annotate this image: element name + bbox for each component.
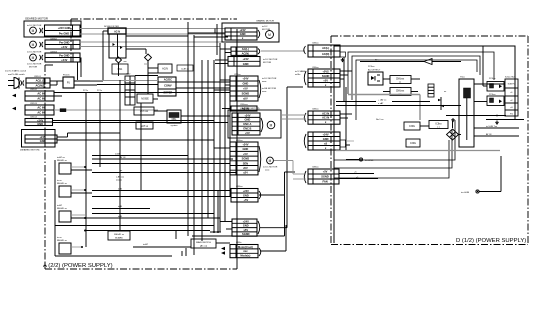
box filter F1	[158, 64, 172, 73]
thermostat TS1 diamond	[116, 57, 122, 63]
wire CN102 out	[54, 92, 230, 94]
long wire y163	[92, 163, 230, 165]
wire fuse out	[74, 80, 103, 82]
svg-text:+24V: +24V	[242, 142, 248, 146]
svg-text:A (2/2) (POWER SUPPLY): A (2/2) (POWER SUPPLY)	[43, 263, 113, 269]
svg-text:AT IN: AT IN	[486, 133, 492, 136]
long wire y196	[92, 196, 231, 198]
svg-text:CN6x: CN6x	[409, 125, 416, 128]
wire D interior v2	[345, 87, 347, 150]
svg-text:AC(L): AC(L)	[242, 47, 249, 51]
svg-text:CN6xxx: CN6xxx	[396, 78, 405, 81]
svg-text:+24V: +24V	[242, 77, 248, 81]
long wire y225	[55, 225, 214, 227]
D main board box	[334, 46, 515, 243]
svg-text:CN6x: CN6x	[410, 142, 417, 145]
box left small2	[406, 139, 420, 147]
wire D2 to interior	[340, 70, 352, 72]
svg-text:SGND: SGND	[242, 92, 250, 96]
connector strip 4pin	[428, 84, 434, 97]
svg-text:to DC MOTOR: to DC MOTOR	[263, 58, 278, 61]
svg-text:xxx: xxx	[243, 250, 248, 253]
geared motor box top-mid	[222, 20, 279, 43]
box IC602	[429, 121, 448, 129]
noise filter header box	[108, 28, 126, 34]
main switch box	[191, 239, 216, 248]
svg-text:+24V GND: +24V GND	[58, 26, 71, 30]
wires into bar1	[220, 48, 231, 50]
relay RY1 wires	[71, 166, 85, 168]
motor top-mid	[266, 31, 274, 39]
AC arrow	[424, 59, 432, 65]
svg-text:(xxxx): (xxxx)	[116, 180, 122, 182]
svg-text:SEN: SEN	[243, 161, 248, 165]
svg-text:x5V: x5V	[243, 166, 248, 170]
svg-text:Pw GND: Pw GND	[59, 53, 69, 57]
svg-text:AC DETECT: AC DETECT	[368, 69, 381, 72]
connector CN902 bar	[45, 39, 80, 50]
geared motor M901 box	[24, 21, 81, 37]
svg-text:and To BE switch: and To BE switch	[8, 73, 26, 76]
connector D5 table	[304, 167, 339, 185]
FET Q601	[438, 91, 447, 110]
svg-text:x5V: x5V	[243, 228, 248, 232]
svg-text:AC IN: AC IN	[322, 111, 329, 115]
connector CN101 bar	[26, 76, 50, 88]
svg-text:MAIN SWITCH: MAIN SWITCH	[196, 241, 211, 244]
svg-text:DBL: DBL	[172, 118, 177, 121]
connector T3 table	[230, 74, 261, 101]
svg-text:AC-N: AC-N	[114, 31, 120, 34]
fuse FU101 box	[63, 75, 74, 89]
wire grey pair from CN901	[80, 28, 225, 30]
bus wire v x214	[213, 60, 215, 232]
wire grey bar1 to D1	[261, 50, 305, 52]
section A boundary (dash-dot)	[45, 19, 237, 269]
svg-text:x24: x24	[243, 171, 248, 175]
svg-text:IC6xx SUB: IC6xx SUB	[505, 77, 516, 79]
svg-text:to DC MOTOR: to DC MOTOR	[263, 166, 278, 169]
wire cluster v2	[140, 103, 142, 190]
svg-text:CN6xx: CN6xx	[236, 186, 243, 188]
wire CN104 out	[53, 120, 215, 122]
svg-text:PC6xx: PC6xx	[368, 66, 375, 68]
relay RY3	[57, 204, 71, 222]
svg-text:CN6xxx: CN6xxx	[396, 90, 405, 93]
wire CN101 to fuse	[50, 80, 63, 82]
svg-text:xxISx: xxISx	[295, 74, 301, 76]
svg-text:+24V: +24V	[243, 57, 249, 61]
wire cluster outs	[176, 81, 230, 83]
svg-text:SUB Pin: SUB Pin	[508, 84, 517, 86]
svg-text:FU101: FU101	[63, 75, 70, 77]
bus wire v x230	[229, 96, 231, 196]
svg-text:to DC MOTOR: to DC MOTOR	[27, 24, 42, 27]
svg-text:+ xAT xx: + xAT xx	[378, 99, 387, 102]
relay RY1	[57, 156, 71, 174]
wire y115 row	[446, 115, 506, 117]
svg-text:RELAY xx: RELAY xx	[57, 239, 68, 242]
wire D3 out	[340, 113, 352, 115]
svg-text:GND: GND	[243, 82, 249, 86]
svg-text:to B: to B	[118, 188, 122, 191]
svg-text:D (1/2) (POWER SUPPLY): D (1/2) (POWER SUPPLY)	[456, 238, 526, 244]
connector T6 table	[231, 186, 261, 202]
svg-text:M: M	[270, 123, 273, 127]
inner box A-bottom	[54, 160, 56, 256]
svg-text:GEARED MOTOR: GEARED MOTOR	[256, 20, 274, 23]
long wire y190	[92, 190, 231, 192]
svg-text:MOTOR: MOTOR	[29, 67, 38, 69]
D nested rect 2	[352, 56, 480, 100]
wire cluster v3	[147, 62, 149, 94]
svg-text:ENC B: ENC B	[243, 127, 251, 131]
svg-text:+5V: +5V	[323, 78, 328, 82]
bus wire v x225	[224, 43, 226, 222]
box E6	[134, 107, 154, 115]
connector T5 table	[230, 140, 261, 175]
connector CN105 box	[22, 130, 56, 148]
svg-text:+5VS: +5VS	[322, 69, 329, 73]
svg-text:CN6xx: CN6xx	[312, 167, 319, 169]
svg-text:Mode(x): Mode(x)	[240, 254, 250, 258]
box CN6xx R1	[390, 76, 411, 84]
svg-text:to B: to B	[118, 205, 122, 208]
box double system (dark)	[167, 110, 181, 123]
wires into M0	[188, 32, 225, 34]
svg-text:ENC A: ENC A	[243, 122, 251, 126]
svg-text:+5V: +5V	[323, 170, 328, 174]
box left small1	[404, 122, 420, 130]
svg-text:IC6xx: IC6xx	[435, 123, 442, 126]
wire cluster v4	[148, 72, 158, 74]
connector D4 table	[304, 132, 340, 150]
bus wire h y33	[220, 79, 230, 81]
wire D interior v1	[343, 57, 345, 101]
svg-text:PC6xx: PC6xx	[489, 78, 496, 80]
svg-text:No.1 xx: No.1 xx	[376, 119, 384, 121]
svg-text:CN2: CN2	[126, 74, 131, 76]
svg-text:GND: GND	[37, 122, 43, 126]
D nested rect 1	[348, 52, 494, 94]
wire CN105 out	[57, 136, 68, 138]
AC plug P1	[8, 78, 24, 89]
connector bar1	[231, 47, 257, 55]
connector D3 table	[304, 109, 340, 125]
box to-AT label	[177, 65, 193, 71]
wire h y84	[97, 84, 158, 86]
long wire y230	[85, 230, 210, 232]
svg-text:AC IN: AC IN	[37, 97, 44, 101]
relay RY2 wires	[71, 189, 85, 191]
svg-text:to xGND: to xGND	[365, 159, 374, 162]
svg-text:+5V: +5V	[244, 198, 249, 202]
svg-text:GND: GND	[240, 32, 246, 36]
svg-text:AC(L): AC(L)	[322, 46, 329, 50]
wire grey big box to D3	[281, 114, 306, 116]
svg-text:CONV: CONV	[164, 84, 172, 88]
svg-text:AC(N): AC(N)	[322, 52, 329, 56]
svg-text:AC IN: AC IN	[322, 116, 329, 120]
motor M902	[27, 41, 43, 53]
svg-text:CN6x: CN6x	[236, 242, 242, 244]
svg-text:to AT: to AT	[57, 204, 63, 207]
svg-text:AC IN: AC IN	[37, 111, 44, 115]
wire D4 to interior	[346, 140, 354, 142]
svg-text:Pw GND: Pw GND	[59, 31, 69, 35]
svg-text:GEARED MOTOR: GEARED MOTOR	[25, 17, 48, 21]
bus wire v x202	[201, 60, 203, 241]
wire opto to R1	[383, 78, 390, 80]
noise filter left wire	[102, 31, 104, 81]
box E8	[136, 122, 153, 129]
svg-text:to DC MOTOR: to DC MOTOR	[27, 51, 42, 54]
svg-text:+24V: +24V	[37, 118, 43, 122]
svg-text:system: system	[171, 124, 178, 127]
svg-text:+24V: +24V	[240, 28, 246, 32]
svg-text:+5V: +5V	[245, 131, 250, 135]
svg-text:x AT xxx: x AT xxx	[116, 176, 125, 179]
bus wire h y37	[194, 36, 228, 38]
thermostat TS2 diamond	[145, 54, 152, 61]
svg-text:(GEARED MOTOR): (GEARED MOTOR)	[20, 149, 40, 152]
svg-text:AC(N): AC(N)	[242, 51, 249, 55]
svg-text:+5V: +5V	[243, 152, 248, 156]
svg-text:RELAY xx: RELAY xx	[57, 207, 68, 210]
bus wire v x194	[193, 35, 195, 255]
svg-text:SGND: SGND	[242, 157, 250, 161]
svg-text:GND: GND	[243, 224, 249, 228]
connector T7 table	[232, 219, 257, 236]
IC601 box	[505, 77, 518, 117]
svg-text:(AC xx): (AC xx)	[200, 245, 208, 248]
svg-text:+24V: +24V	[40, 135, 46, 139]
thermostat label box	[112, 64, 128, 74]
svg-text:GND: GND	[40, 139, 46, 143]
svg-text:to DC MOTOR: to DC MOTOR	[262, 77, 277, 80]
svg-text:NOISE: NOISE	[141, 98, 149, 101]
geared motor box mid	[228, 107, 281, 138]
connector CN104 bar	[25, 117, 53, 126]
svg-text:PC1x: PC1x	[97, 90, 102, 92]
relay RY3 wires	[71, 214, 85, 216]
svg-text:to DC: to DC	[262, 25, 268, 28]
svg-text:GND: GND	[323, 137, 329, 141]
svg-text:GND: GND	[245, 118, 251, 122]
D nested rect 3	[356, 60, 477, 120]
relay RY4 wires	[71, 246, 82, 248]
box noise filter	[137, 94, 153, 103]
svg-text:RELAY xx: RELAY xx	[57, 159, 68, 162]
connector T4 table	[232, 113, 260, 135]
svg-text:to BE MOTOR: to BE MOTOR	[262, 87, 276, 90]
svg-text:x xAT: x xAT	[378, 102, 384, 105]
junction bottom wires	[181, 251, 183, 256]
motor M muid	[267, 121, 275, 129]
ground right	[496, 121, 498, 123]
boundary bus x237	[236, 29, 238, 258]
connector D2 table	[295, 67, 340, 87]
svg-text:to AT: to AT	[143, 243, 149, 246]
ground at D1	[342, 58, 344, 60]
photocoupler PC602	[487, 78, 504, 91]
wire cluster v1	[119, 80, 121, 230]
svg-text:xxx: xxx	[124, 61, 127, 63]
wires PC to IC	[504, 85, 505, 87]
svg-text:CN1: CN1	[118, 68, 123, 71]
svg-text:AC/N: AC/N	[162, 68, 168, 71]
svg-text:to SUB Txx: to SUB Txx	[486, 125, 498, 128]
svg-text:+24V: +24V	[61, 45, 67, 49]
svg-text:+24V: +24V	[243, 219, 249, 223]
wire out y128	[474, 127, 519, 129]
svg-text:GND: GND	[243, 62, 249, 66]
grey long wire y150	[336, 150, 500, 152]
svg-text:GND: GND	[243, 193, 249, 197]
connector AC-IN row	[222, 104, 257, 111]
relay RY4	[57, 236, 71, 254]
D1 ext box	[340, 52, 346, 57]
connector CN903 bar	[45, 52, 80, 63]
wire T8 right	[261, 250, 286, 252]
svg-text:MOTOR: MOTOR	[263, 62, 272, 64]
svg-text:FU: FU	[67, 82, 70, 85]
D4 ext box	[340, 140, 346, 147]
wire D5 right y170	[339, 173, 374, 175]
svg-text:M: M	[269, 159, 272, 163]
svg-text:SGND: SGND	[322, 74, 330, 78]
wire grey fan2 to D5	[274, 160, 293, 162]
wire h y80 grey	[90, 80, 158, 82]
wire transformer right top	[474, 83, 505, 85]
bridge diode BD601	[447, 129, 459, 140]
section D boundary (dash-dot)	[331, 36, 528, 245]
grey power wire loop	[348, 94, 420, 96]
connector CN103 bar	[12, 103, 54, 115]
bus wire v x220	[219, 43, 221, 232]
box CN6xx R2	[390, 88, 411, 96]
photocoupler PC601	[368, 66, 383, 85]
bus wire v x188	[187, 22, 189, 236]
svg-text:GND: GND	[243, 147, 249, 151]
relay test board box	[108, 231, 130, 240]
connector T8 table	[221, 242, 261, 258]
relay RY2	[57, 179, 71, 197]
noise filter right wires	[126, 35, 188, 37]
transformer T601 box	[459, 77, 474, 148]
svg-text:x5V: x5V	[243, 97, 248, 101]
svg-text:Motor(Cool): Motor(Cool)	[238, 245, 253, 249]
wire T6 right	[259, 194, 285, 196]
connector strip CN201	[125, 74, 135, 106]
photocoupler PC603	[487, 94, 504, 106]
svg-text:CN6xx: CN6xx	[312, 109, 319, 111]
svg-text:Pw GND: Pw GND	[59, 40, 69, 44]
wire T7 right	[260, 227, 287, 229]
svg-text:to DC MOTOR: to DC MOTOR	[27, 63, 42, 66]
svg-text:+24V: +24V	[244, 113, 250, 117]
noise filter body box	[109, 34, 126, 58]
svg-text:AC(N): AC(N)	[36, 84, 43, 88]
svg-text:AC IN: AC IN	[37, 106, 44, 110]
wire out y136	[474, 135, 519, 137]
connector M0 table	[225, 28, 257, 40]
svg-text:to AT xx: to AT xx	[57, 156, 66, 159]
motor M901	[27, 24, 43, 34]
wire CN103 grey out	[54, 109, 158, 111]
gnd circle left	[346, 159, 359, 161]
svg-text:ERTER: ERTER	[164, 91, 173, 95]
ground under FET	[452, 118, 454, 120]
connector CN901 bar	[45, 25, 81, 36]
svg-text:CN6xx: CN6xx	[312, 43, 319, 45]
fan motor 2	[267, 157, 274, 164]
svg-text:M: M	[32, 56, 35, 60]
svg-text:+24V: +24V	[323, 132, 329, 136]
wire pair from CN903	[77, 62, 79, 80]
svg-text:BOARD: BOARD	[115, 237, 123, 240]
svg-text:to X SATA: to X SATA	[295, 70, 305, 73]
bus wire v x208	[207, 60, 209, 218]
svg-text:+24V: +24V	[243, 189, 249, 193]
connector CN102 bar	[12, 89, 54, 101]
svg-text:+24V: +24V	[61, 58, 67, 62]
wire cluster h y75	[135, 75, 158, 77]
svg-text:AC IN: AC IN	[37, 92, 44, 96]
svg-text:M: M	[268, 33, 271, 37]
svg-text:to xSUB: to xSUB	[461, 191, 470, 194]
wire bridge	[420, 125, 429, 127]
svg-text:+5V: +5V	[243, 87, 248, 91]
svg-text:M: M	[32, 29, 35, 33]
svg-text:PC1x: PC1x	[83, 90, 88, 92]
svg-text:text To STATIC switch: text To STATIC switch	[5, 70, 27, 73]
svg-text:FAN: FAN	[322, 180, 327, 184]
svg-text:SGND: SGND	[321, 175, 329, 179]
box converter table	[158, 77, 176, 96]
long wire y213b	[92, 213, 214, 215]
svg-text:xAT xx: xAT xx	[141, 125, 149, 128]
wire grey pair from CN902	[80, 41, 225, 43]
svg-text:RELAY xx: RELAY xx	[114, 233, 125, 236]
svg-text:RELAY xx: RELAY xx	[57, 182, 68, 185]
svg-text:xxx: xxx	[144, 64, 147, 66]
motor M903	[30, 54, 43, 61]
connector T1 table	[228, 57, 260, 67]
svg-text:AC(L): AC(L)	[36, 79, 43, 83]
wire D5 right y176	[339, 178, 378, 180]
connector D1 table	[308, 43, 340, 58]
svg-text:AC/DC: AC/DC	[164, 78, 172, 82]
svg-text:M: M	[32, 43, 35, 47]
